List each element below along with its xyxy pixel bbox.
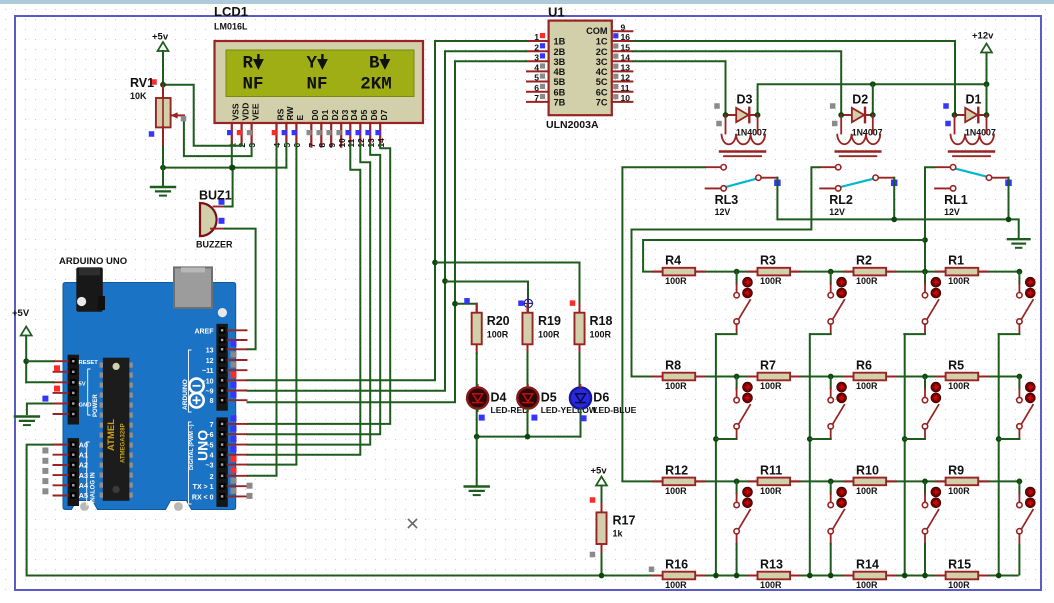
svg-text:100R: 100R [948,486,970,496]
svg-text:12V: 12V [715,207,731,217]
wire matrix row 1 net [643,271,1019,273]
wire matrix row 3 net [622,480,1019,482]
wire U1 2B to Arduino pin 9 with junction tap to R19 [247,51,533,391]
svg-text:RV1: RV1 [130,76,154,90]
svg-text:13: 13 [206,347,214,354]
gray marker near R16 [649,567,655,573]
diode D2 1N4007 [830,93,883,138]
svg-text:100R: 100R [590,330,612,340]
svg-text:D6: D6 [593,391,609,405]
svg-text:ATMEL: ATMEL [106,419,117,451]
wire +5V to RESET pin [26,361,53,382]
svg-text:D6: D6 [369,109,379,120]
svg-text:~9: ~9 [206,389,214,396]
potentiometer RV1 10K [130,76,186,168]
svg-text:R8: R8 [665,359,681,373]
svg-text:+5v: +5v [152,32,169,43]
resistor R5 100R [936,359,988,392]
Arduino left pin stubs and state squares [42,361,67,495]
relay coil RL2 [836,115,881,156]
svg-text:8: 8 [317,143,327,148]
svg-text:R16: R16 [665,558,688,572]
svg-text:TX > 1: TX > 1 [193,484,214,491]
wire GND pin to ground [27,404,54,416]
resistor R9 100R [936,463,988,496]
LCD display LCD1 LM016L [214,4,423,123]
wire R18 to LED D6 [580,353,581,387]
svg-text:~3: ~3 [206,463,214,470]
svg-text:5V: 5V [79,381,86,387]
+12v power terminal [972,31,994,85]
svg-text:3C: 3C [596,57,608,67]
svg-text:2B: 2B [554,47,566,57]
svg-text:R10: R10 [856,463,879,477]
svg-text:1N4007: 1N4007 [852,128,883,138]
svg-text:ATMEGA328P: ATMEGA328P [121,423,127,463]
svg-text:R13: R13 [760,558,783,572]
svg-text:D0: D0 [310,109,320,120]
switch row 2 column 3 [904,374,941,439]
svg-text:R1: R1 [948,254,964,268]
svg-text:100R: 100R [665,486,687,496]
+5v power terminal above R17 [590,466,608,504]
wire +12v rail to diode cathodes with junctions [758,81,990,115]
relay coil RL3 [720,115,765,156]
wire R20 to LED D4 [476,353,478,387]
resistor R18 100R [574,304,612,354]
relay coil RL1 [949,115,994,156]
svg-text:R19: R19 [538,314,561,328]
wire LCD D7 pin14 to Arduino pin 7 [247,143,391,424]
svg-text:4C: 4C [596,67,608,77]
svg-text:LCD1: LCD1 [214,4,248,19]
svg-text:3B: 3B [554,57,566,67]
wire RL3 NO contact to row 3 feed [622,167,705,481]
svg-text:R2: R2 [856,254,872,268]
svg-text:8: 8 [210,398,214,405]
diode D1 1N4007 [943,93,996,138]
resistor R12 100R [653,463,705,496]
wire matrix bottom rail to Arduino A0 [27,445,1019,576]
svg-text:100R: 100R [948,580,970,590]
ground below LEDs [465,437,489,496]
switch row 3 column 1 [734,479,753,579]
wire LCD D4 pin11 to Arduino pin 4 [247,143,361,455]
diode D3 1N4007 [714,93,767,138]
LED D6 blue [570,385,591,411]
svg-text:3: 3 [534,53,539,63]
wire switch column 3 to bottom rail with junctions [902,334,908,578]
svg-text:LED-YELLOW: LED-YELLOW [541,405,598,415]
svg-text:~10: ~10 [202,378,214,385]
svg-text:RS: RS [275,108,285,120]
resistor R3 100R [748,254,800,287]
svg-text:1: 1 [534,32,539,42]
svg-text:R7: R7 [760,359,776,373]
+5V power terminal left of Arduino [12,308,32,382]
svg-text:POWER: POWER [93,394,99,417]
LCD pin stubs and state squares [227,123,381,147]
svg-text:ARDUINO: ARDUINO [182,379,189,410]
svg-text:100R: 100R [856,276,878,286]
svg-text:6B: 6B [554,87,566,97]
svg-text:R6: R6 [856,359,872,373]
wire U1 2C to relay RL2 diode anode [632,51,841,115]
svg-text:R17: R17 [613,514,636,528]
svg-text:VSS: VSS [231,103,241,120]
svg-text:D1: D1 [966,93,982,107]
labels LED D4 D5 [491,391,598,416]
resistor R7 100R [748,359,800,392]
svg-text:2: 2 [210,474,214,481]
wire RL3 common to ground rail [776,178,778,220]
switch row 3 column 2 [828,479,847,579]
resistor R4 100R [653,254,705,287]
svg-text:1k: 1k [613,529,624,539]
ground below RV1 [151,168,175,196]
svg-text:11: 11 [621,83,630,93]
Arduino right pin stubs and state squares [228,330,253,499]
wire relay ground rail with junctions [777,217,1018,240]
svg-text:5B: 5B [554,77,566,87]
svg-text:100R: 100R [856,381,878,391]
wire LED cathodes to ground with junctions [474,409,587,440]
svg-text:D1: D1 [320,109,330,120]
svg-text:14: 14 [621,53,631,63]
svg-text:R12: R12 [665,463,688,477]
svg-text:D4: D4 [349,109,359,120]
svg-text:4: 4 [534,63,539,73]
wire LCD E pin6 to Arduino pin 3 [247,143,297,465]
svg-text:100R: 100R [760,486,782,496]
svg-text:RL3: RL3 [715,193,739,207]
switch row 3 column 4 [1017,479,1036,576]
switch row 3 column 3 [922,479,941,579]
U1 pin numbers [534,22,630,103]
svg-text:D2: D2 [330,109,340,120]
svg-text:COM: COM [586,26,608,36]
svg-text:7: 7 [307,143,317,148]
svg-text:1C: 1C [596,37,608,47]
wire RL1 common to ground rail [1008,178,1010,220]
svg-text:2C: 2C [596,47,608,57]
wire switch column 2 to bottom rail with junctions [807,334,813,578]
svg-text:12V: 12V [829,207,845,217]
svg-text:RESET: RESET [79,360,99,366]
svg-text:ULN2003A: ULN2003A [546,119,599,131]
resistor R6 100R [844,359,896,392]
svg-text:+5V: +5V [12,308,30,319]
resistor R17 1k [590,503,636,557]
wire RL2 NO contact to row 2 feed [632,167,821,376]
LCD pin numbers 1-14 [227,138,385,148]
ground at relay commons [1008,239,1030,248]
wire LCD D5 pin12 to Arduino pin 5 [247,143,371,445]
wire LCD RS pin4 to Arduino pin 2 [247,143,277,476]
svg-text:10: 10 [621,93,631,103]
switch row 2 column 1 [716,374,752,439]
+5v power terminal above RV1 [151,32,169,88]
svg-text:7B: 7B [554,98,566,108]
resistor R15 100R [936,558,988,591]
svg-text:R3: R3 [760,254,776,268]
svg-text:+5v: +5v [591,466,608,477]
relay contacts RL3 12V [706,165,781,218]
switch row 2 column 4 [999,374,1036,439]
wire matrix row 2 net [632,376,1020,378]
svg-text:LED-BLUE: LED-BLUE [593,405,636,415]
svg-text:100R: 100R [760,381,782,391]
svg-text:12: 12 [206,358,214,365]
IC U1 ULN2003A [527,5,632,132]
svg-text:RW: RW [285,106,295,121]
svg-text:5C: 5C [596,77,608,87]
svg-text:100R: 100R [760,580,782,590]
svg-text:1B: 1B [554,37,566,47]
resistor R19 100R [522,304,561,354]
svg-text:R15: R15 [948,558,971,572]
svg-text:Y: Y [307,54,318,74]
svg-text:D7: D7 [379,109,389,120]
wire R19 to LED D5 [527,353,529,387]
svg-text:100R: 100R [760,276,782,286]
svg-text:D3: D3 [737,93,753,107]
Arduino mounting holes [77,297,227,511]
svg-text:D5: D5 [359,109,369,120]
svg-text:R14: R14 [856,558,879,572]
svg-text:R4: R4 [665,254,681,268]
svg-text:BUZZER: BUZZER [196,240,233,250]
Arduino power and analog headers [68,355,79,506]
resistor R8 100R [653,359,705,392]
switch row 1 column 3 [904,269,941,334]
wire LCD VDD pin2 to +5v at RV1 top [165,85,242,146]
LED D4 red [467,385,488,411]
relay contacts RL2 12V [820,165,897,218]
Arduino ATMEGA328P chip [100,358,133,501]
Arduino USB connector [174,267,212,308]
Arduino digital headers [216,324,227,507]
Arduino power jack [76,267,105,311]
label LED D6 [593,391,636,416]
svg-text:R5: R5 [948,359,964,373]
resistor R16 100R [653,558,705,591]
svg-text:100R: 100R [948,381,970,391]
svg-text:R18: R18 [590,314,613,328]
svg-text:100R: 100R [948,276,970,286]
svg-text:2: 2 [534,42,539,52]
no-connect marker [409,520,417,528]
svg-text:NF: NF [307,75,328,95]
svg-text:DIGITAL (PWM ~): DIGITAL (PWM ~) [189,424,195,470]
svg-text:LM016L: LM016L [214,22,248,32]
svg-text:+12v: +12v [972,31,994,42]
switch row 1 column 2 [810,269,846,334]
switch row 1 column 4 [999,269,1036,334]
wire LCD RW pin5 to ground rail [285,143,287,168]
svg-text:6C: 6C [596,87,608,97]
svg-text:12V: 12V [944,207,960,217]
svg-text:100R: 100R [487,330,509,340]
svg-text:7: 7 [210,422,214,429]
wire LCD VEE pin3 to RV1 wiper [184,115,252,156]
wire switch column 1 to bottom rail with junctions [713,334,719,578]
svg-text:100R: 100R [538,330,560,340]
svg-text:R9: R9 [948,463,964,477]
resistor R1 100R [936,254,988,287]
svg-text:5: 5 [534,73,539,83]
svg-text:R20: R20 [487,314,510,328]
svg-text:100R: 100R [665,580,687,590]
svg-text:~5: ~5 [206,443,214,450]
svg-text:15: 15 [621,42,631,52]
svg-text:ANALOG IN: ANALOG IN [91,472,97,506]
resistor R14 100R [844,558,896,591]
svg-text:VEE: VEE [250,103,260,120]
svg-text:4: 4 [210,453,214,460]
svg-text:NF: NF [243,75,264,95]
svg-text:D2: D2 [852,93,868,107]
wire buzzer bottom pin to Arduino pin 13 [224,229,256,350]
svg-text:9: 9 [327,143,337,148]
svg-text:RX < 0: RX < 0 [192,494,214,501]
svg-text:ARDUINO UNO: ARDUINO UNO [59,256,127,267]
wire U1 1B to Arduino pin 10 with junction tap to R18 [247,41,580,380]
svg-text:D5: D5 [541,391,557,405]
Arduino power and analog labels [79,360,99,506]
svg-text:100R: 100R [665,276,687,286]
wire U1 3B to Arduino pin 8 with junction tap to R20 [247,61,528,402]
resistor R20 100R [472,304,510,354]
svg-text:R11: R11 [760,463,782,477]
svg-text:9: 9 [621,22,626,32]
svg-text:7: 7 [534,93,539,103]
Arduino UNO board [59,256,236,510]
wire LCD VSS pin1 to ground rail with junction [229,143,235,170]
Arduino logo and UNO text [182,379,211,461]
svg-text:RL2: RL2 [829,193,853,207]
svg-text:E: E [295,115,305,121]
svg-text:B: B [369,54,380,74]
switch row 1 column 1 [716,269,752,334]
resistor R11 100R [748,463,800,496]
resistor R10 100R [844,463,896,496]
svg-text:7C: 7C [596,98,608,108]
wire LCD D6 pin13 to Arduino pin 6 [247,143,381,434]
svg-text:100R: 100R [665,381,687,391]
wire buzzer top pin to ground rail with junction [224,165,235,207]
svg-text:D4: D4 [491,391,507,405]
wire RL1 NO contact to row 1 feed [643,167,935,271]
resistor R13 100R [748,558,800,591]
svg-text:RL1: RL1 [944,193,968,207]
resistor R2 100R [844,254,896,287]
buzzer BUZ1 [196,189,233,250]
svg-text:6: 6 [534,83,539,93]
svg-text:16: 16 [621,32,631,42]
Arduino digital pin labels [189,328,215,504]
svg-text:GND: GND [79,402,92,408]
svg-text:100R: 100R [856,486,878,496]
LCD screen text [243,54,392,95]
wire RL2 common to ground rail [893,178,895,220]
wire R17 to bottom rail with junction [599,553,605,578]
LCD pin name labels VSS VDD VEE RS RW E D0-D7 [231,103,389,121]
svg-text:BUZ1: BUZ1 [199,189,232,203]
wire U1 3C to relay RL3 diode anode [632,61,725,115]
switch row 2 column 2 [810,374,846,439]
wire U1 1C to relay RL1 diode anode [632,41,955,115]
svg-text:10K: 10K [130,91,147,101]
svg-text:~6: ~6 [206,432,214,439]
svg-text:U1: U1 [548,5,565,20]
svg-text:12: 12 [621,73,631,83]
svg-text:AREF: AREF [194,328,214,335]
svg-text:R: R [243,54,254,74]
svg-text:100R: 100R [856,580,878,590]
wire ground rail below RV1 with junctions [160,165,286,171]
LED D5 yellow [517,385,538,411]
relay contacts RL1 12V [935,165,1012,218]
svg-text:13: 13 [621,63,631,73]
svg-text:VDD: VDD [240,103,250,121]
svg-text:~11: ~11 [202,368,214,375]
wire switch column 4 to bottom rail with junctions [996,334,1002,578]
svg-text:2KM: 2KM [360,75,392,95]
svg-text:4B: 4B [554,67,566,77]
ground left of Arduino [15,417,39,426]
